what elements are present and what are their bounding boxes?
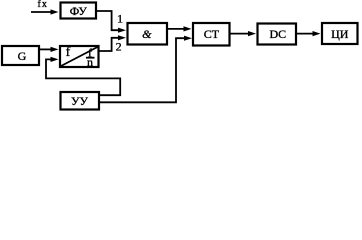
- svg-text:n: n: [87, 55, 93, 69]
- svg-text:f: f: [66, 45, 71, 60]
- svg-text:2: 2: [116, 40, 122, 54]
- svg-text:1: 1: [117, 12, 123, 26]
- svg-text:DC: DC: [269, 27, 286, 41]
- svg-text:ЦИ: ЦИ: [331, 27, 349, 41]
- svg-text:fx: fx: [38, 0, 48, 10]
- svg-text:ФУ: ФУ: [70, 4, 88, 18]
- svg-text:УУ: УУ: [71, 94, 88, 108]
- svg-text:СТ: СТ: [204, 27, 220, 41]
- svg-text:G: G: [18, 49, 27, 63]
- svg-text:&: &: [142, 27, 152, 41]
